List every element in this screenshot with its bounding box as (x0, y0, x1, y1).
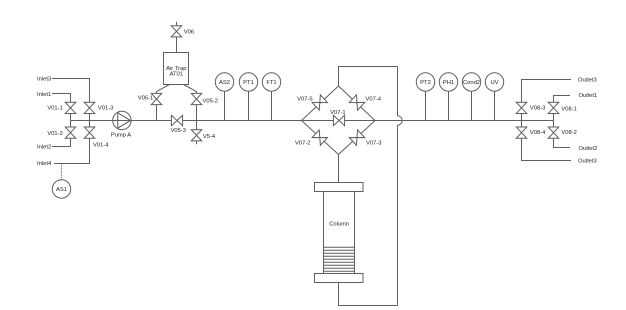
valve V07-4 (349, 95, 381, 110)
valve V01-1 (47, 102, 75, 113)
wire: UV drop line (494, 82, 496, 121)
valve V07-2 (295, 130, 327, 147)
svg-text:V08-3: V08-3 (530, 105, 545, 111)
valve V08-3 (516, 102, 545, 113)
svg-text:V05-1: V05-1 (138, 96, 153, 102)
air trap AT01 (164, 53, 189, 85)
wire: PT2 drop line (425, 82, 427, 121)
wire: leader line V07-5 (312, 102, 320, 104)
pump P1 Pump A (111, 111, 131, 138)
sensor PT1 (239, 73, 257, 91)
valve V05-3 (171, 115, 186, 134)
wire: air trap right slant to V05-2 (184, 85, 197, 121)
sensor Cond2 (462, 73, 480, 91)
svg-text:V05-3: V05-3 (171, 128, 186, 134)
valve V05-2 (191, 93, 218, 104)
wire: leader line V07-2 (312, 137, 320, 139)
sensor AS1 (52, 180, 70, 198)
valve V01-3 (84, 102, 113, 113)
wire: outlet2 branch (554, 121, 571, 148)
svg-text:V07-3: V07-3 (366, 141, 381, 147)
wire: diamond bottom to column top (338, 155, 340, 183)
wire: PH1 drop line (448, 82, 450, 121)
svg-text:AS1: AS1 (56, 187, 67, 193)
wire: outlet3 bottom branch (522, 121, 572, 161)
wire: diamond edge top-right (339, 86, 376, 121)
svg-text:Inlet3: Inlet3 (37, 76, 51, 82)
wire: inlet3 branch (52, 79, 90, 121)
svg-text:V06: V06 (184, 29, 194, 35)
svg-text:V01-1: V01-1 (47, 106, 62, 112)
svg-text:Cond2: Cond2 (463, 80, 480, 86)
valve V01-4 (84, 127, 109, 149)
sensor PH1 (439, 73, 457, 91)
svg-text:V01-4: V01-4 (93, 143, 109, 149)
wire: Cond2 drop line (471, 82, 473, 121)
valve V01-2 (47, 127, 75, 138)
sensor FT1 (262, 73, 280, 91)
svg-text:UV: UV (490, 80, 498, 86)
svg-text:Outlet2: Outlet2 (579, 146, 598, 152)
svg-text:FT1: FT1 (266, 80, 276, 86)
wire: column bottom return line (339, 282, 398, 306)
valve V06 (171, 26, 194, 37)
valve V08-1 (548, 102, 577, 113)
svg-text:V07-5: V07-5 (297, 97, 312, 103)
wire: leader line V07-3 (358, 137, 366, 139)
svg-text:Inlet4: Inlet4 (37, 161, 52, 167)
wire: branch below main line to V5-4 (196, 121, 198, 145)
sensor AS2 (215, 73, 233, 91)
svg-text:AT01: AT01 (170, 72, 183, 78)
svg-text:Outlet1: Outlet1 (579, 93, 598, 99)
column packing stripes (324, 247, 355, 271)
wire: air trap top stub to V06 (176, 22, 178, 53)
svg-text:V5-4: V5-4 (203, 134, 216, 140)
valve V08-4 (516, 127, 546, 138)
valve V07-3 (349, 130, 381, 147)
wire: diamond edge bottom-right (339, 121, 376, 155)
svg-text:AS2: AS2 (219, 80, 230, 86)
wire: diamond edge left-bottom (302, 121, 339, 155)
wire: main process line (70, 120, 554, 122)
svg-text:V01-2: V01-2 (47, 131, 62, 137)
wire: FT1 drop line (271, 82, 273, 121)
svg-text:Pump A: Pump A (111, 133, 131, 139)
svg-text:Outlet3: Outlet3 (578, 158, 597, 164)
column body (324, 192, 355, 274)
wire: inlet1 branch (52, 94, 71, 121)
sensor UV (485, 73, 503, 91)
wire: loop vertical with hop over main line (398, 67, 403, 306)
wire: leader line V07-4 (358, 102, 366, 104)
valve V05-1 (138, 93, 162, 104)
wire: diamond edge left-top (302, 86, 339, 121)
valve V07-5 (297, 95, 327, 110)
svg-text:Inlet1: Inlet1 (37, 92, 51, 98)
wire: inlet2 branch (52, 121, 71, 147)
svg-text:V08-2: V08-2 (561, 130, 576, 136)
svg-text:Column: Column (329, 222, 349, 228)
valve V5-4 (191, 130, 216, 141)
wire: outlet1 branch (554, 96, 571, 121)
wire: outlet3 top branch (522, 80, 572, 121)
column bottom flange (315, 274, 364, 283)
svg-text:PT1: PT1 (243, 80, 254, 86)
svg-text:Inlet2: Inlet2 (37, 145, 51, 151)
valve V07-1 (330, 110, 345, 126)
svg-text:V05-2: V05-2 (203, 98, 218, 104)
wire: air trap left slant to V05-1 (157, 85, 170, 121)
svg-text:V08-1: V08-1 (561, 106, 576, 112)
wire: inlet4 branch (54, 121, 90, 164)
column top flange (315, 183, 364, 192)
wire: AS2 drop line (224, 82, 226, 121)
sensor PT2 (416, 73, 434, 91)
svg-text:V07-2: V07-2 (295, 141, 310, 147)
svg-text:PT2: PT2 (420, 80, 431, 86)
valve V08-2 (548, 127, 577, 138)
wire: dashed signal line to AS1 (61, 164, 63, 180)
wire: diamond top to upper loop line (339, 67, 398, 87)
svg-text:V07-4: V07-4 (366, 97, 382, 103)
svg-text:V07-1: V07-1 (330, 110, 345, 116)
svg-text:PH1: PH1 (443, 80, 454, 86)
wire: PT1 drop line (248, 82, 250, 121)
svg-text:Outlet3: Outlet3 (578, 77, 597, 83)
svg-text:V01-3: V01-3 (98, 106, 113, 112)
svg-text:V08-4: V08-4 (530, 130, 546, 136)
